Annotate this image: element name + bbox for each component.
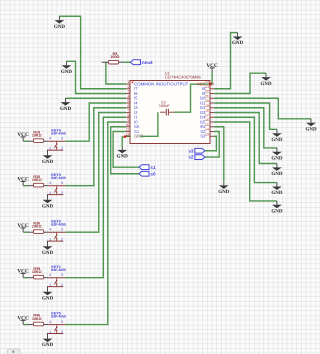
svg-text:B3F-4055: B3F-4055: [51, 315, 66, 319]
IC U1 right pin 21 (I10): [200, 94, 214, 100]
IC U1 left pin 8 (I1): [126, 113, 138, 119]
UI overlay fragment bottom-left: [8, 349, 21, 354]
IC U1 left pin 5 (I4): [126, 99, 138, 105]
wire VCC to R19: [23, 140, 28, 142]
svg-text:s3: s3: [188, 148, 194, 153]
IC U1 left pin 1 (COMMON INOUT/OUTPUT): [126, 80, 189, 86]
svg-text:GND: GND: [232, 40, 244, 46]
IC U1 left pin 7 (I2): [126, 109, 138, 115]
IC U1 right pin 19 (I12): [200, 104, 214, 110]
pushbutton KEY4 B3F-4055: [47, 128, 66, 150]
wire net I3: IC pin6 to KEY3: [66, 108, 126, 186]
svg-text:4: 4: [49, 181, 51, 185]
svg-text:B3F-4055: B3F-4055: [51, 176, 66, 180]
wire net I2: IC pin7 to KEY2: [66, 113, 126, 233]
ground below IC (pin12 GND net): [117, 147, 129, 160]
wire net I15: IC pin16 to ground: [214, 122, 277, 201]
svg-text:GND: GND: [61, 69, 73, 75]
junction node pin12/C3/ground: [124, 135, 127, 138]
wire net S1: IC pin11 to port s1: [113, 132, 139, 168]
svg-text:7: 7: [127, 109, 129, 113]
svg-text:GND: GND: [271, 137, 283, 143]
resistor R9 lead: [119, 61, 124, 63]
svg-text:22: 22: [205, 90, 209, 94]
svg-text:s2: s2: [188, 155, 194, 160]
svg-text:neu4: neu4: [142, 60, 153, 65]
pushbutton KEY2 B3F-4055: [47, 219, 66, 241]
svg-text:GND: GND: [305, 126, 317, 132]
svg-text:3: 3: [61, 273, 63, 277]
IC U1 left pin 3 (I6): [126, 90, 138, 96]
resistor R19 lead: [28, 140, 33, 142]
wire net COMMON: IC pin1 to resistor R9: [106, 62, 126, 84]
ground (net I5): [60, 98, 72, 112]
svg-text:3: 3: [61, 320, 63, 324]
svg-text:17: 17: [205, 113, 209, 117]
resistor R36 lead: [44, 231, 49, 233]
svg-text:10KΩ: 10KΩ: [32, 178, 42, 182]
IC U1 right pin 18 (I13): [200, 109, 214, 115]
port s3: [188, 148, 204, 153]
IC U1 left pin 2 (I7): [126, 85, 138, 91]
wire net S2: IC pin14 to port s2: [205, 132, 219, 158]
svg-text:4: 4: [49, 273, 51, 277]
resistor R36 10K: [32, 221, 44, 233]
wire net I9: IC pin22 to ground: [214, 73, 266, 93]
svg-text:3: 3: [127, 90, 129, 94]
svg-text:20: 20: [205, 99, 209, 103]
svg-text:4: 4: [127, 94, 129, 98]
pushbutton KEY1 B3F-4055: [47, 265, 66, 287]
pushbutton KEY5 B3F-4055: [47, 312, 66, 334]
resistor R30 10K: [32, 175, 44, 187]
svg-text:10KΩ: 10KΩ: [32, 224, 42, 228]
svg-text:s1: s1: [150, 165, 156, 170]
resistor R30 lead: [28, 185, 33, 187]
svg-text:B3F-4055: B3F-4055: [51, 222, 66, 226]
wire net E#: IC pin15 to ground: [214, 127, 224, 182]
svg-text:CD74HC4067SM96: CD74HC4067SM96: [165, 75, 202, 80]
power VCC for KEY5: [17, 315, 29, 324]
svg-text:14: 14: [205, 128, 209, 132]
svg-text:2: 2: [127, 85, 129, 89]
wire net I1: IC pin8 to KEY1: [66, 117, 126, 277]
IC U1 right pin 17 (I14): [200, 113, 214, 119]
svg-text:GND: GND: [60, 106, 72, 112]
resistor R45 lead: [44, 324, 49, 326]
svg-text:GND: GND: [42, 295, 54, 301]
wire VCC to R45: [23, 324, 28, 326]
svg-text:GND: GND: [42, 250, 54, 256]
svg-text:GND: GND: [271, 156, 283, 162]
svg-text:12: 12: [125, 132, 129, 136]
wire net I4: IC pin5 to KEY4: [66, 103, 126, 141]
wire VCC to R36: [23, 231, 28, 233]
IC U1 left pin 6 (I3): [126, 104, 138, 110]
wire net I7: IC pin2 to top-left ground: [59, 16, 126, 89]
ground below KEY1: [42, 287, 54, 302]
svg-text:10KΩ: 10KΩ: [32, 317, 42, 321]
resistor R19 10K: [32, 130, 44, 142]
svg-text:GND: GND: [42, 159, 54, 165]
svg-text:13: 13: [205, 132, 209, 136]
wire net I10: IC pin21 to ground: [214, 98, 311, 119]
ground (net I9): [260, 73, 272, 87]
svg-text:COMMON INOUT/OUTPUT: COMMON INOUT/OUTPUT: [134, 81, 189, 86]
ground below KEY2: [42, 241, 54, 256]
ground (net I13): [271, 164, 283, 178]
svg-text:B3F-4055: B3F-4055: [51, 268, 66, 272]
svg-text:18: 18: [205, 109, 209, 113]
wire GND symbol lead below IC: [122, 137, 125, 147]
IC U1 left pin 4 (I5): [126, 94, 138, 100]
IC U1 right pin 22 (I9): [202, 90, 214, 96]
svg-text:GND: GND: [260, 81, 272, 87]
IC U1 left pin 12 (GND): [125, 132, 143, 138]
svg-text:5: 5: [127, 99, 129, 103]
wire net I13: IC pin18 to ground: [214, 113, 277, 164]
svg-text:11: 11: [126, 128, 130, 132]
port s2: [188, 155, 204, 160]
IC U1 right pin 20 (I11): [200, 99, 214, 105]
IC U1 right pin 15 (E#): [200, 123, 214, 129]
ground (net I10, far right): [305, 119, 317, 133]
svg-text:21: 21: [205, 94, 209, 98]
svg-text:6: 6: [127, 104, 129, 108]
op-amp/mux IC U1 CD74HC4067SM96 body: [130, 70, 210, 143]
ground below KEY4: [42, 150, 54, 165]
svg-text:3: 3: [61, 137, 63, 141]
svg-text:16: 16: [205, 118, 209, 122]
svg-text:8: 8: [127, 113, 129, 117]
svg-text:19: 19: [205, 104, 209, 108]
svg-text:24: 24: [205, 80, 209, 84]
ground (net I12): [271, 148, 283, 162]
svg-text:GND: GND: [271, 190, 283, 196]
IC U1 right pin 24 (VCC): [197, 80, 214, 86]
wire net S0: IC pin10 to port s0: [111, 127, 139, 174]
wire net VCC: C3 right to IC pin24 and VCC flag: [174, 84, 212, 112]
svg-text:4: 4: [49, 320, 51, 324]
wire net I14: IC pin17 to ground: [214, 117, 277, 182]
ground (net I7, top-left): [54, 16, 66, 30]
ground (net I14): [271, 183, 283, 197]
resistor R19 lead: [44, 140, 49, 142]
wire net I6: IC pin3 to ground: [66, 61, 126, 93]
resistor R39 10K: [32, 267, 44, 279]
port s0: [139, 171, 156, 176]
port neu4: [131, 60, 153, 65]
svg-text:100nF: 100nF: [159, 104, 170, 108]
ground (net I8, top-right): [232, 33, 244, 47]
ground below KEY5: [42, 334, 54, 349]
power VCC for KEY3: [17, 177, 29, 186]
wire net I8: IC pin23 to ground: [214, 33, 238, 89]
wire net I11: IC pin20 to ground: [214, 103, 277, 129]
resistor R9 lead: [102, 61, 109, 63]
svg-text:s0: s0: [150, 171, 156, 176]
wire net I0: IC pin9 to KEY5: [66, 122, 126, 325]
wire net S3: IC pin13 to port s3: [205, 136, 217, 151]
svg-text:GND: GND: [271, 171, 283, 177]
wire net I5: IC pin4 to ground: [66, 97, 127, 99]
svg-text:B3F-4055: B3F-4055: [51, 131, 66, 135]
wire net I12: IC pin19 to ground: [214, 108, 277, 148]
resistor R36 lead: [28, 231, 33, 233]
svg-text:10: 10: [125, 123, 129, 127]
svg-text:4: 4: [49, 137, 51, 141]
svg-text:GND: GND: [42, 342, 54, 348]
IC U1 right pin 14 (S2): [200, 128, 214, 134]
resistor R45 10K: [32, 314, 44, 326]
svg-text:3: 3: [61, 181, 63, 185]
ground below KEY3: [42, 195, 54, 210]
IC U1 left pin 11 (S1): [126, 128, 140, 134]
power VCC for KEY2: [17, 223, 29, 232]
capacitor C3 100nF: [159, 100, 174, 115]
svg-text:GND: GND: [271, 209, 283, 215]
svg-text:S3: S3: [200, 134, 206, 139]
IC U1 right pin 23 (I8): [202, 85, 214, 91]
port s1: [139, 165, 156, 170]
power VCC for KEY1: [17, 269, 29, 278]
IC U1 left pin 9 (I0): [126, 118, 138, 124]
resistor R39 lead: [44, 277, 49, 279]
svg-text:10KΩ: 10KΩ: [32, 133, 42, 137]
svg-text:4: 4: [49, 228, 51, 232]
wire net GND: IC pin12 / C3 left / ground: [125, 112, 158, 136]
wire R9 to port neu4: [124, 61, 131, 63]
svg-text:10KΩ: 10KΩ: [32, 270, 42, 274]
svg-text:100Ω: 100Ω: [110, 55, 119, 59]
ground (net E#): [218, 182, 230, 196]
resistor R9 100 ohm: [108, 52, 119, 64]
svg-text:GND: GND: [134, 134, 143, 139]
svg-text:9: 9: [127, 118, 129, 122]
resistor R30 lead: [44, 185, 49, 187]
IC U1 right pin 13 (S3): [200, 132, 214, 138]
IC U1 right pin 16 (I15): [200, 118, 214, 124]
resistor R39 lead: [28, 277, 33, 279]
resistor R45 lead: [28, 324, 33, 326]
wire VCC flag stem: [211, 72, 213, 84]
wire VCC to R30: [23, 185, 28, 187]
svg-text:1: 1: [127, 80, 129, 84]
power VCC flag at IC pin24: [206, 63, 218, 72]
svg-text:3: 3: [61, 228, 63, 232]
svg-text:GND: GND: [218, 189, 230, 195]
pushbutton KEY3 B3F-4055: [47, 173, 66, 195]
svg-text:23: 23: [205, 85, 209, 89]
ground (net I11): [271, 129, 283, 143]
ground (net I6): [61, 61, 73, 75]
wire VCC to R39: [23, 277, 28, 279]
IC U1 left pin 10 (S0): [125, 123, 139, 129]
svg-text:GND: GND: [54, 24, 66, 30]
junction node VCC at pin24: [209, 83, 212, 86]
svg-text:15: 15: [205, 123, 209, 127]
svg-text:GND: GND: [117, 154, 129, 160]
ground (net I15): [271, 201, 283, 215]
power VCC for KEY4: [17, 132, 29, 141]
svg-text:GND: GND: [42, 203, 54, 209]
